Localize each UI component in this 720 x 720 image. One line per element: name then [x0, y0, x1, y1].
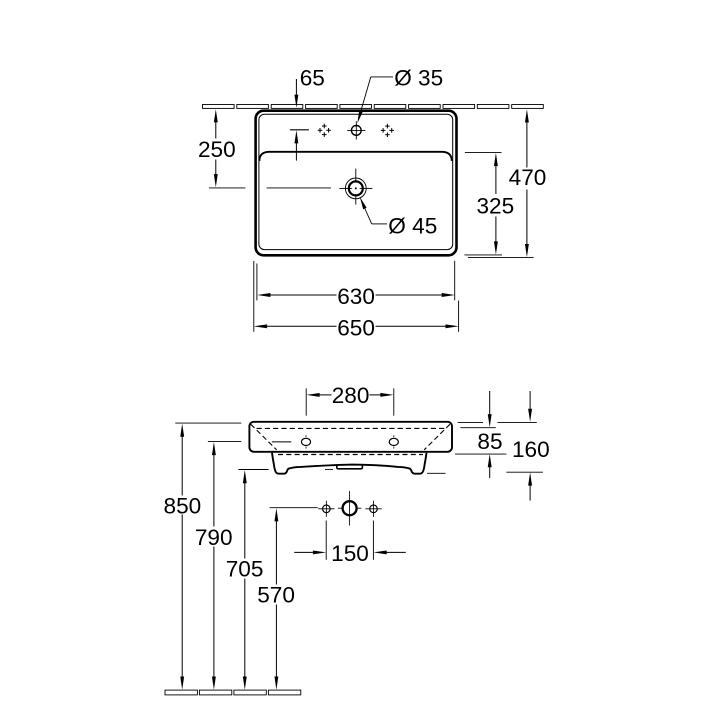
apron bottom slot tab [337, 465, 363, 469]
dim 325 bottom extension line [464, 254, 502, 256]
washbasin rim outline (front) [249, 422, 452, 452]
dim 325 vertical line + arrows [494, 153, 498, 255]
dim 790 vertical line + arrows [212, 442, 216, 690]
svg-text:Ø 35: Ø 35 [394, 65, 443, 90]
rim inner top extension line (for 85) [460, 427, 495, 429]
dim 280 line + arrows [306, 393, 393, 397]
wall hatch band (top view wall line) [203, 105, 544, 109]
apron / semi-pedestal outline [272, 453, 427, 474]
svg-text:850: 850 [164, 493, 202, 518]
svg-text:160: 160 [512, 437, 550, 462]
svg-text:650: 650 [337, 315, 375, 340]
rim bottom extension line (for 85) [455, 453, 506, 455]
dim 790 extension line [208, 440, 241, 442]
dim 85 upper arrow [488, 391, 492, 427]
svg-text:470: 470 [509, 165, 547, 190]
drain hole (Ø45) circles [345, 178, 366, 199]
dim 250 extension line (drain centerline outside) [209, 187, 246, 189]
tap hole circle (center, Ø35) [347, 121, 365, 139]
dim 470 bottom extension line [468, 256, 534, 258]
svg-text:570: 570 [257, 582, 295, 607]
dim 250 vertical line + arrows [214, 109, 218, 187]
label Ø45 leader [360, 197, 387, 224]
svg-text:150: 150 [331, 541, 369, 566]
drain center mark [339, 169, 372, 205]
svg-text:85: 85 [477, 429, 502, 454]
label Ø35 leader [357, 77, 393, 123]
svg-text:705: 705 [226, 557, 264, 582]
dim 630 extension lines [256, 264, 258, 301]
bowl front edge line [259, 152, 451, 161]
fixing hole left (front, ellipse) [301, 435, 310, 448]
rim top extension line (for 160/85) [458, 421, 483, 423]
svg-text:280: 280 [332, 383, 370, 408]
dim 280 extension lines [305, 388, 307, 415]
dim 630 line + arrows [257, 293, 455, 297]
hidden bowl top edge (dashed) [257, 427, 446, 429]
apron bottom extension (right of foot) [427, 472, 446, 474]
svg-text:250: 250 [198, 137, 236, 162]
dim 705 extension line [238, 469, 268, 471]
dim 570 extension line [270, 507, 318, 509]
dim 160 lower arrow [528, 472, 532, 500]
dim 325 top extension line [465, 152, 502, 154]
bolt hole right (small circle) [365, 501, 381, 517]
dim 85 lower arrow [488, 454, 492, 478]
overflow slot line (left, inside rim) [272, 441, 291, 443]
hidden bowl bottom line (dashed, below rim) [278, 454, 423, 456]
fixing hole right (front, ellipse) [389, 435, 398, 448]
tap hole cross mark right [381, 124, 394, 137]
basin outer outline (plan) [256, 111, 457, 256]
drain centerline dash (left) [267, 187, 331, 189]
dim 570 vertical line + arrows [274, 508, 278, 690]
dim 150 extension lines [325, 521, 327, 560]
dim 850 vertical line + arrows [180, 424, 184, 690]
dim 150 line + outside arrows [294, 550, 406, 554]
svg-text:65: 65 [300, 65, 325, 90]
hidden bowl left slant (dashed) [251, 424, 277, 450]
svg-text:Ø 45: Ø 45 [388, 214, 437, 239]
floor hatch band [165, 690, 301, 695]
svg-text:630: 630 [337, 284, 375, 309]
dim 160 upper arrow [528, 391, 532, 422]
dim 470 vertical line + arrows [525, 109, 529, 257]
hidden bowl right slant (dashed) [424, 424, 450, 450]
svg-text:325: 325 [476, 194, 514, 219]
dim 65: upper arrow and line [294, 79, 298, 108]
svg-text:790: 790 [195, 525, 233, 550]
drain outlet hole (center, thick circle) [338, 491, 362, 526]
basin inner rim line (plan) [259, 114, 453, 249]
dim 850 extension line [175, 422, 241, 424]
tap hole cross mark left [318, 124, 331, 137]
dim 705 vertical line + arrows [243, 470, 247, 690]
dim 65: hole centerline ref + up arrow [290, 130, 309, 161]
dim 650 extension lines [253, 261, 255, 332]
apron bottom extension line (for 160) [506, 471, 543, 473]
dim 650 line + arrows [254, 324, 459, 328]
bolt hole left (small circle) [318, 501, 334, 517]
